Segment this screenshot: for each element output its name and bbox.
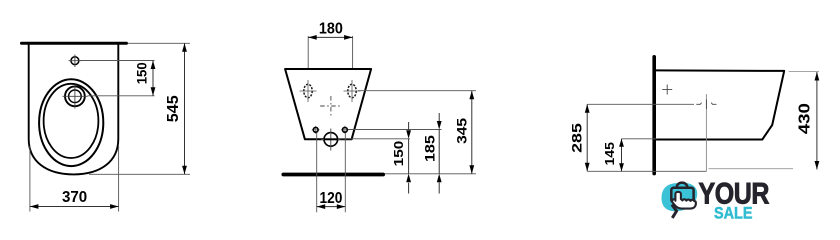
logo wrist <box>672 205 677 218</box>
logo bag handle <box>677 183 688 188</box>
drain hole (front view) <box>324 133 338 147</box>
arrow 150 bottom <box>151 87 156 96</box>
arrow 545 top <box>182 43 187 52</box>
fixing hole small right <box>341 126 349 134</box>
dimension 430 line <box>816 72 818 170</box>
supply cross <box>662 85 672 95</box>
dimension 185 line <box>438 130 440 174</box>
arrow 285 top <box>585 104 590 113</box>
mounting hole left <box>300 80 317 102</box>
body trapezoid (front view) <box>285 69 371 139</box>
bowl inner rim <box>44 84 99 158</box>
svg-text:430: 430 <box>796 103 813 134</box>
svg-text:185: 185 <box>423 134 438 162</box>
leader bottom right <box>709 168 794 170</box>
faucet hole cross <box>69 55 82 68</box>
dimension 180 line <box>308 36 352 38</box>
leader bottom left <box>587 170 706 172</box>
bowl outer rim <box>39 79 103 166</box>
arrow 180 right <box>344 35 353 40</box>
logo hand <box>672 192 696 209</box>
arrow 430 top <box>815 72 820 81</box>
drain outer circle <box>65 86 85 106</box>
extension top for 545 <box>128 42 190 44</box>
floor bar (front view) <box>283 173 383 177</box>
arrow 120 right <box>337 204 346 209</box>
leader cross to 285 <box>587 103 694 105</box>
extension left for 370 <box>29 146 31 212</box>
dimension 150 line (front view) <box>408 139 410 174</box>
svg-text:150: 150 <box>134 62 149 84</box>
leader faucet to 150 dim <box>79 60 155 62</box>
svg-text:120: 120 <box>320 190 343 207</box>
body outline (side view) <box>656 70 784 139</box>
svg-text:180: 180 <box>319 21 343 38</box>
arrow 345 top <box>469 91 474 100</box>
svg-text:285: 285 <box>570 123 586 153</box>
dimension 145 line <box>621 139 623 172</box>
logo blob <box>662 183 698 212</box>
svg-text:SALE: SALE <box>714 203 753 222</box>
svg-text:545: 545 <box>165 95 182 123</box>
dimension 120 line <box>317 206 346 208</box>
wall bar (left view) <box>22 42 127 45</box>
center mark cross <box>320 105 341 107</box>
dimension 150 line (left view) <box>152 61 154 96</box>
extension left for 180 <box>307 36 309 103</box>
extension bottom for 545 <box>89 173 190 175</box>
dimension 285 line <box>586 104 588 171</box>
logo bag <box>671 188 693 202</box>
dimension 345 line <box>471 91 473 174</box>
leader floor to right dims <box>385 173 476 175</box>
arrow 370 right <box>110 204 119 209</box>
leader mounting hole to 345 <box>358 90 476 92</box>
mounting hole right <box>344 80 361 102</box>
svg-text:145: 145 <box>602 142 617 166</box>
fixing hole small left <box>312 126 320 134</box>
svg-text:150: 150 <box>391 141 406 167</box>
arrow 120 left <box>317 204 326 209</box>
arrow 180 left <box>308 35 317 40</box>
svg-text:345: 345 <box>455 118 471 144</box>
extension right for 370 <box>118 146 120 212</box>
dimension 370 line <box>30 206 119 208</box>
leader drain to 150 dim <box>88 95 155 97</box>
faucet hole <box>71 57 79 65</box>
extension right for 180 <box>352 36 354 103</box>
drain dash marks <box>696 100 716 110</box>
extension left for 120 <box>316 133 318 212</box>
wall bar (side view) <box>652 57 656 174</box>
arrow 150fv bottom outside <box>406 174 411 183</box>
drain hole cross <box>321 129 341 151</box>
leader body bottom to 145 <box>622 138 657 140</box>
arrow 430 bottom <box>815 161 820 170</box>
arrow 145 top <box>619 139 624 147</box>
bottom edge through drain <box>324 138 338 140</box>
extension right for 120 <box>344 133 346 212</box>
arrow 150fv top outside <box>406 130 411 139</box>
drain cross <box>63 85 88 109</box>
arrow 285 bottom <box>585 163 590 172</box>
leader top right <box>789 70 819 72</box>
arrow 185 bottom outside <box>437 174 442 183</box>
arrow 145 bottom <box>619 163 624 171</box>
dimension 545 line <box>184 43 186 174</box>
arrow 345 bottom <box>469 165 474 174</box>
arrow 185 top outside <box>437 121 442 130</box>
arrow 150 top <box>151 61 156 70</box>
arrow 370 left <box>30 204 39 209</box>
leader fixing hole to 185 <box>348 129 442 131</box>
arrow 545 bottom <box>182 166 187 175</box>
leader drain to 150 <box>338 138 410 140</box>
body outline (left view) <box>29 44 119 174</box>
drain inner circle <box>69 90 82 103</box>
drain centerline (side view) <box>705 94 707 171</box>
svg-text:370: 370 <box>62 189 87 206</box>
